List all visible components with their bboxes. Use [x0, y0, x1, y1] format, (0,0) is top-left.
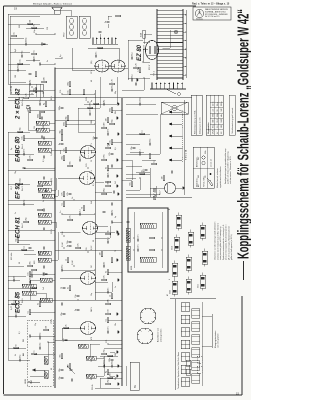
- svg-text:0,5M: 0,5M: [72, 260, 74, 265]
- transformer TR1 winding rung 10: [157, 45, 183, 47]
- capacitor C21 T3: [42, 155, 44, 158]
- wire tone filter top bus: [133, 212, 135, 268]
- wire top mesh 3: [8, 315, 26, 317]
- ground extra 6 bar2: [118, 193, 120, 195]
- svg-text:7k: 7k: [34, 24, 36, 26]
- node ground bus junction 5: [121, 221, 122, 222]
- svg-text:2k: 2k: [104, 262, 106, 264]
- svg-text:kHz: kHz: [221, 114, 223, 117]
- node B+ tap 2: [54, 277, 56, 279]
- pictorial IF can 8 lead right: [202, 273, 204, 276]
- capacitor C93: [68, 194, 71, 196]
- tube EABC80 (Roe4) anode: [81, 151, 85, 153]
- svg-text:5n: 5n: [80, 156, 82, 158]
- coil IF transformer T3 sec hatch2: [40, 141, 41, 145]
- transformer TR1 winding rung 11: [157, 42, 183, 44]
- tube ECC85 triode a (Roe1a) cathode: [90, 327, 92, 330]
- tube ECH81 (Roe2) cathode lead: [93, 227, 97, 229]
- coil ratio det sec hatch1: [36, 121, 37, 125]
- coil L9 osc MV hatch5: [126, 233, 130, 235]
- wire output band mesh 7: [26, 59, 40, 61]
- coil IF transformer T3 sec hatch4: [43, 141, 44, 145]
- coil IF transformer T3 pri hatch7: [48, 148, 49, 152]
- mains selector contact 7: [177, 84, 179, 89]
- coil tone filter L10 hatch4: [146, 223, 148, 228]
- tube EZ80 anode bar: [149, 46, 151, 54]
- coil L13 band filter hatch4: [45, 278, 46, 282]
- svg-text:90: 90: [91, 378, 93, 380]
- wire bottom mid mesh 4: [95, 225, 108, 227]
- resistor R134: [106, 181, 111, 183]
- capacitor C101: [60, 378, 63, 380]
- coil ratio det pri hatch2: [38, 128, 39, 132]
- resistor R69: [18, 131, 23, 133]
- coil L6 AM ant hatch4: [91, 374, 92, 378]
- resistor R112: [140, 133, 145, 135]
- svg-text:15,5: 15,5: [217, 119, 219, 122]
- coil L7 AM osc hatch1: [86, 356, 87, 360]
- svg-text:27k: 27k: [60, 90, 62, 93]
- svg-text:10n: 10n: [90, 109, 92, 112]
- coil IF transformer T1 pri: [38, 258, 51, 262]
- node ground bus junction 4: [121, 271, 122, 272]
- node junction 55: [63, 235, 64, 236]
- coil L6 AM ant hatch5: [92, 374, 93, 378]
- resistor R43: [45, 102, 47, 107]
- coil L2 input hatch3: [44, 360, 48, 362]
- switch spring 6 leaf a: [192, 315, 200, 317]
- capacitor C55: [44, 274, 47, 276]
- resistor R65: [22, 249, 27, 251]
- resistor R38: [23, 136, 25, 141]
- svg-text:87,5: 87,5: [213, 125, 215, 128]
- capacitor C27 tone: [94, 54, 96, 57]
- capacitor C76 plate: [24, 202, 26, 205]
- pictorial IF can 1 lead left: [174, 294, 176, 297]
- socket view 2 pin 7: [140, 316, 142, 318]
- svg-text:47k: 47k: [24, 149, 26, 152]
- resistor R40: [39, 114, 41, 119]
- svg-text:50k: 50k: [43, 125, 45, 128]
- tube EABC80 (Roe4) cathode: [90, 151, 92, 154]
- svg-text:9308: 9308: [131, 266, 133, 270]
- transformer TR1 tap dot 2: [185, 66, 186, 67]
- svg-text:8p: 8p: [91, 100, 93, 102]
- wire ECL82a anode: [72, 48, 95, 70]
- wire output band mesh 2: [10, 81, 26, 83]
- pictorial IF can 5 lead right: [188, 255, 190, 258]
- service stamp logo circle: [195, 9, 203, 17]
- capacitor C78 plate: [24, 152, 26, 155]
- svg-text:70p: 70p: [15, 171, 17, 174]
- capacitor C96 plate: [62, 286, 65, 288]
- wire heater link: [131, 160, 133, 180]
- coil IF transformer T2 pri hatch3: [41, 188, 42, 192]
- svg-text:1n5: 1n5: [43, 287, 45, 290]
- tube ECC85 triode a (Roe1a): [81, 322, 96, 335]
- mains selector contact 3: [160, 84, 162, 89]
- wire output band mesh 4: [10, 37, 24, 39]
- svg-text:MHz: MHz: [217, 113, 219, 117]
- wire lower-left mesh 1: [95, 387, 120, 389]
- socket view 1 pin 9: [140, 330, 141, 331]
- node junction 23: [35, 33, 36, 34]
- wire AF2 mesh 2: [126, 177, 136, 179]
- coil IF transformer T1 sec: [38, 251, 51, 255]
- resistor R100: [102, 193, 107, 195]
- switch spring 4 leaf a: [192, 341, 200, 343]
- wire AF2 mesh 3: [126, 165, 142, 167]
- table T2 vline5: [210, 107, 223, 109]
- wire ECL82a grid: [78, 77, 100, 108]
- wire T1 to anode: [51, 232, 58, 260]
- tube EF92 (Roe3) cathode: [89, 177, 91, 180]
- transformer TR1 tap lead 3: [183, 57, 186, 59]
- wire AF drop 2: [95, 181, 104, 183]
- coil L8 osc KV hatch6: [126, 250, 130, 252]
- terminal box dot b: [31, 86, 32, 87]
- transformer TR1 winding rung 12: [157, 38, 183, 40]
- capacitor C150 input: [110, 364, 112, 367]
- svg-text:1M: 1M: [68, 364, 70, 367]
- terminal box Ba2 divider: [35, 91, 37, 97]
- transformer TR1 tap dot 7: [185, 23, 186, 24]
- resistor R80: [67, 258, 69, 263]
- pictorial IF can 7 lead right: [178, 213, 180, 216]
- pictorial IF can 7 band 1: [177, 224, 181, 227]
- band switch button 4 stem: [171, 123, 182, 125]
- wire top mesh 18: [7, 14, 9, 84]
- border frame right: [4, 5, 197, 7]
- svg-text:588: 588: [221, 109, 223, 112]
- capacitor C120 T0 plate: [44, 227, 46, 230]
- svg-text:FM: FM: [23, 339, 25, 342]
- node junction 34: [73, 265, 74, 266]
- svg-text:460: 460: [198, 175, 200, 178]
- band switch button 1 stem: [171, 159, 182, 161]
- tube ECL82 b (Roe6): [111, 60, 125, 72]
- capacitor C64: [60, 268, 62, 271]
- svg-text:25p: 25p: [43, 251, 45, 254]
- capacitor C29 filter b plate: [132, 56, 134, 59]
- svg-text:150: 150: [86, 248, 88, 251]
- coil IF T0 sec hatch6: [46, 213, 47, 217]
- node ECH81 B+ tap: [54, 231, 56, 233]
- coil L7 AM osc hatch3: [89, 356, 90, 360]
- wire stub 11: [62, 269, 95, 271]
- capacitor C115 plate: [104, 364, 106, 367]
- coil IF transformer T1 sec hatch1: [38, 251, 39, 255]
- capacitor C133 plate: [46, 189, 48, 192]
- wire top mesh 2: [8, 347, 26, 349]
- tuner dashed enclosure: [27, 320, 53, 386]
- svg-text:Röhrenbestückung und Stift-: Röhrenbestückung und Stift-: [193, 110, 196, 134]
- table T3 note frame: [229, 95, 235, 135]
- coil L4 FM IF hatch6: [31, 291, 32, 295]
- svg-text:0,1: 0,1: [93, 183, 95, 186]
- tube ECC85 triode b (Roe1b): [81, 272, 96, 285]
- resistor R17: [98, 47, 103, 49]
- table T4 hline2: [206, 147, 208, 188]
- switch spring 2 leaf b: [192, 362, 200, 364]
- capacitor C143: [106, 22, 109, 24]
- coil IF transformer T2 pri hatch6: [46, 188, 47, 192]
- mains selector dot 3: [160, 83, 162, 85]
- ground EF92 cathode bar2: [117, 185, 119, 187]
- wire bottom mid mesh 2: [95, 281, 108, 283]
- wire stage tie 3: [8, 199, 122, 201]
- wire top mesh 16: [7, 280, 9, 360]
- coil IF transformer T2 pri hatch1: [38, 188, 39, 192]
- coil L2 input: [44, 356, 48, 364]
- resistor R21 tone b: [150, 237, 155, 239]
- capacitor C136 plate: [114, 190, 116, 193]
- switch contact block 4 pole: [181, 343, 190, 345]
- connector strip tooth 2: [96, 39, 98, 44]
- capacitor C26: [110, 88, 112, 91]
- wire ECH81 cathode: [96, 231, 116, 233]
- capacitor C1 trimmer plate: [40, 346, 42, 349]
- pictorial IF can 9 band 1: [203, 260, 207, 263]
- switch spring 5 leaf a: [192, 328, 200, 330]
- resistor R31: [39, 302, 41, 307]
- resistor R1: [44, 329, 49, 331]
- connector strip pin 2: [96, 38, 98, 40]
- ground extra 5 bar3: [119, 233, 121, 236]
- ground extra 4 bar2: [118, 279, 120, 281]
- svg-text:anslutas via ett motstånd på 1: anslutas via ett motstånd på 1 MΩ. Värde…: [216, 222, 219, 260]
- capacitor C97 plate: [60, 106, 63, 108]
- capacitor C31 tone a: [136, 248, 138, 251]
- node rail junction 4: [54, 273, 55, 274]
- pictorial IF can 8 lead left: [202, 288, 204, 291]
- resistor R88: [69, 90, 71, 95]
- ground extra 2 bar2: [118, 365, 120, 367]
- resistor R33: [17, 238, 19, 243]
- coil ratio det sec hatch2: [38, 121, 39, 125]
- resistor R62: [69, 82, 71, 87]
- capacitor C132 el: [38, 102, 40, 105]
- capacitor C130 ratio plate: [42, 135, 44, 138]
- wire out mesh 3: [108, 16, 112, 20]
- wire bandfilter top: [30, 280, 40, 300]
- wire ECC85b anode: [60, 277, 81, 279]
- capacitor C136: [112, 190, 114, 193]
- transformer TR1 winding rung 2: [157, 73, 183, 75]
- wire tone filter bottom bus: [161, 212, 163, 268]
- node ground bus junction 3: [121, 319, 122, 320]
- tube ECC85 triode a (Roe1a) cathode lead: [91, 327, 95, 329]
- ground extra 4: [117, 278, 119, 281]
- resistor R79: [107, 118, 109, 123]
- coil IF transformer T3 pri hatch4: [43, 148, 44, 152]
- svg-text:5n: 5n: [105, 21, 107, 23]
- svg-text:1620: 1620: [221, 119, 223, 123]
- capacitor C101 plate: [60, 376, 63, 378]
- wire heater rail: [183, 100, 185, 195]
- resistor R114: [152, 163, 157, 165]
- node junction 37: [73, 199, 74, 200]
- pictorial IF can 3 lead right: [176, 235, 178, 238]
- capacitor C29 filter b: [130, 56, 132, 59]
- svg-text:ECH 81: ECH 81: [16, 216, 22, 238]
- coil L3 osc hatch5: [84, 344, 85, 348]
- ground EM85 bar3: [184, 187, 186, 190]
- switch contact block 3: [181, 353, 190, 362]
- ground IF: [116, 174, 118, 177]
- svg-text:1n: 1n: [66, 259, 68, 261]
- tube EABC80 (Roe4) anode plate: [84, 150, 86, 154]
- resistor R9 screen EF92: [68, 165, 73, 167]
- connector strip pin 4: [104, 38, 106, 40]
- transformer TR1 tap dot 3: [185, 57, 186, 58]
- coil L12 band filter hatch4: [45, 298, 46, 302]
- capacitor C12 plate: [80, 212, 82, 215]
- svg-text:50p: 50p: [34, 30, 36, 33]
- svg-text:1k: 1k: [72, 197, 74, 199]
- coil IF transformer T3 sec hatch6: [46, 141, 47, 145]
- capacitor C143 plate: [106, 20, 109, 22]
- coil IF T0 sec: [38, 213, 51, 217]
- capacitor C115: [102, 364, 104, 367]
- svg-text:90k: 90k: [70, 161, 72, 164]
- capacitor C96: [62, 288, 65, 290]
- socket view 2 pin 5: [147, 322, 149, 324]
- coil L2 input hatch2: [44, 361, 48, 363]
- wire bottom mid mesh 5: [111, 282, 113, 292]
- ground extra 8: [117, 102, 119, 105]
- wire stub 23: [108, 371, 122, 373]
- resistor R42: [35, 88, 37, 93]
- coil IF transformer T3 sec hatch1: [38, 141, 39, 145]
- coil IF transformer T2 pri hatch2: [40, 188, 41, 192]
- node ground bus junction 1: [121, 371, 122, 372]
- pictorial IF can 1 lead right: [174, 279, 176, 282]
- coil L5 FM IF sec hatch2: [24, 284, 25, 288]
- coil IF transformer T3 sec: [38, 141, 51, 145]
- capacitor C86: [20, 54, 22, 57]
- svg-text:Rö 1: Rö 1: [22, 298, 24, 303]
- wire AF2 mesh 4: [139, 178, 141, 190]
- capacitor C111: [106, 132, 108, 135]
- band switch button 4 arrow: [169, 123, 172, 126]
- coil tone filter L11 hatch6: [150, 257, 152, 262]
- coil L8 osc KV hatch5: [126, 251, 130, 253]
- coil IF T0 sec hatch2: [40, 213, 41, 217]
- connector strip pin 7: [115, 38, 117, 40]
- wire AM antenna lead: [34, 369, 44, 371]
- switch spring 3 leaf a: [192, 354, 200, 356]
- svg-text:170 V: 170 V: [51, 318, 53, 324]
- coil det sec L14 hatch5: [49, 194, 50, 198]
- svg-text:47k: 47k: [109, 152, 111, 155]
- switch contact block 5: [181, 328, 190, 337]
- ground tuner 2: [116, 350, 118, 353]
- pictorial IF can 6 band 2: [189, 234, 193, 237]
- transformer TR1 tap dot 5: [185, 40, 186, 41]
- svg-text:50k: 50k: [130, 182, 132, 185]
- coil L5 FM IF sec: [22, 284, 36, 288]
- svg-text:470k: 470k: [104, 154, 106, 158]
- variable capacitor C9 arrowhead: [67, 366, 69, 368]
- tube ECC85 triode b (Roe1b) anode: [81, 277, 85, 279]
- pictorial IF can 9 lead right: [204, 249, 206, 252]
- wire bracket lead 1: [202, 345, 212, 347]
- resistor R6 osc grid: [76, 247, 81, 249]
- switch spring 4 leaf b: [192, 336, 200, 338]
- mains selector dot 5: [168, 83, 170, 85]
- wire osc return: [127, 244, 129, 246]
- svg-text:220: 220: [47, 27, 49, 30]
- capacitor C2 plate: [40, 336, 42, 339]
- svg-text:Vågområden: Vågområden: [207, 122, 210, 134]
- switch contact block 6: [181, 315, 190, 324]
- tube ECL82 b (Roe6) cathode lead: [121, 65, 125, 67]
- svg-text:2n: 2n: [60, 211, 62, 213]
- svg-text:2n: 2n: [108, 288, 110, 290]
- transformer TR1 tap dot 4: [185, 49, 186, 50]
- coil L5 FM IF sec hatch6: [31, 284, 32, 288]
- pictorial IF can 3 band 1: [175, 246, 179, 249]
- resistor R122 fb: [32, 27, 37, 29]
- coil IF transformer T2 pri: [38, 188, 51, 192]
- resistor R18 field coil: [139, 68, 141, 73]
- coil L3 osc: [78, 344, 88, 348]
- tube EZ80 rectifier bulb: [145, 41, 158, 60]
- wire power mesh 8: [127, 40, 129, 68]
- svg-text:350: 350: [19, 25, 21, 28]
- capacitor C72: [14, 314, 16, 317]
- wire ground bus: [121, 98, 123, 386]
- ground extra 5 bar2: [118, 233, 120, 235]
- pictorial IF can 10 lead right: [202, 223, 204, 226]
- tube EF92 (Roe3) anode: [80, 177, 84, 179]
- capacitor C99 plate: [64, 338, 67, 340]
- pictorial IF can 5 band 1: [187, 266, 191, 269]
- ground ECH81 cathode bar3: [118, 231, 120, 234]
- resistor R78: [111, 140, 113, 145]
- capacitor C131 ratio: [40, 116, 42, 119]
- wire AF2 mesh 8: [130, 151, 144, 153]
- svg-text:300: 300: [115, 353, 117, 356]
- switch spring block 2: [192, 361, 200, 371]
- ground tuner 2 bar3: [118, 351, 120, 354]
- svg-text:1M: 1M: [100, 252, 102, 255]
- wire ECH top mesh 5: [7, 244, 9, 288]
- wire gnd stub 2: [110, 351, 115, 353]
- tube ECL82 b (Roe6) cathode: [120, 65, 122, 68]
- capacitor C22 T3: [42, 136, 44, 139]
- table T2 hline3: [218, 95, 220, 135]
- table T2 vline2: [210, 123, 223, 125]
- coil tone filter L11 hatch4: [146, 257, 148, 262]
- wire out mesh 2: [107, 24, 109, 28]
- coil ratio det sec hatch4: [41, 121, 42, 125]
- node AM junction: [103, 357, 105, 359]
- svg-text:Tonabnehmer Sprache Jazz So: Tonabnehmer Sprache Jazz Solo Orch. Bass: [177, 352, 180, 389]
- ground EF92 cathode: [116, 184, 118, 187]
- capacitor C83: [110, 220, 112, 223]
- capacitor C107 plate: [104, 264, 106, 267]
- wire speaker link 1: [60, 10, 71, 16]
- pictorial IF can 6 lead right: [190, 230, 192, 233]
- capacitor C80 plate: [30, 82, 32, 85]
- svg-text:22k: 22k: [108, 299, 110, 302]
- resistor R84: [63, 156, 65, 161]
- svg-text:60: 60: [51, 368, 53, 370]
- capacitor C2: [38, 336, 40, 339]
- capacitor C123 line: [134, 82, 136, 85]
